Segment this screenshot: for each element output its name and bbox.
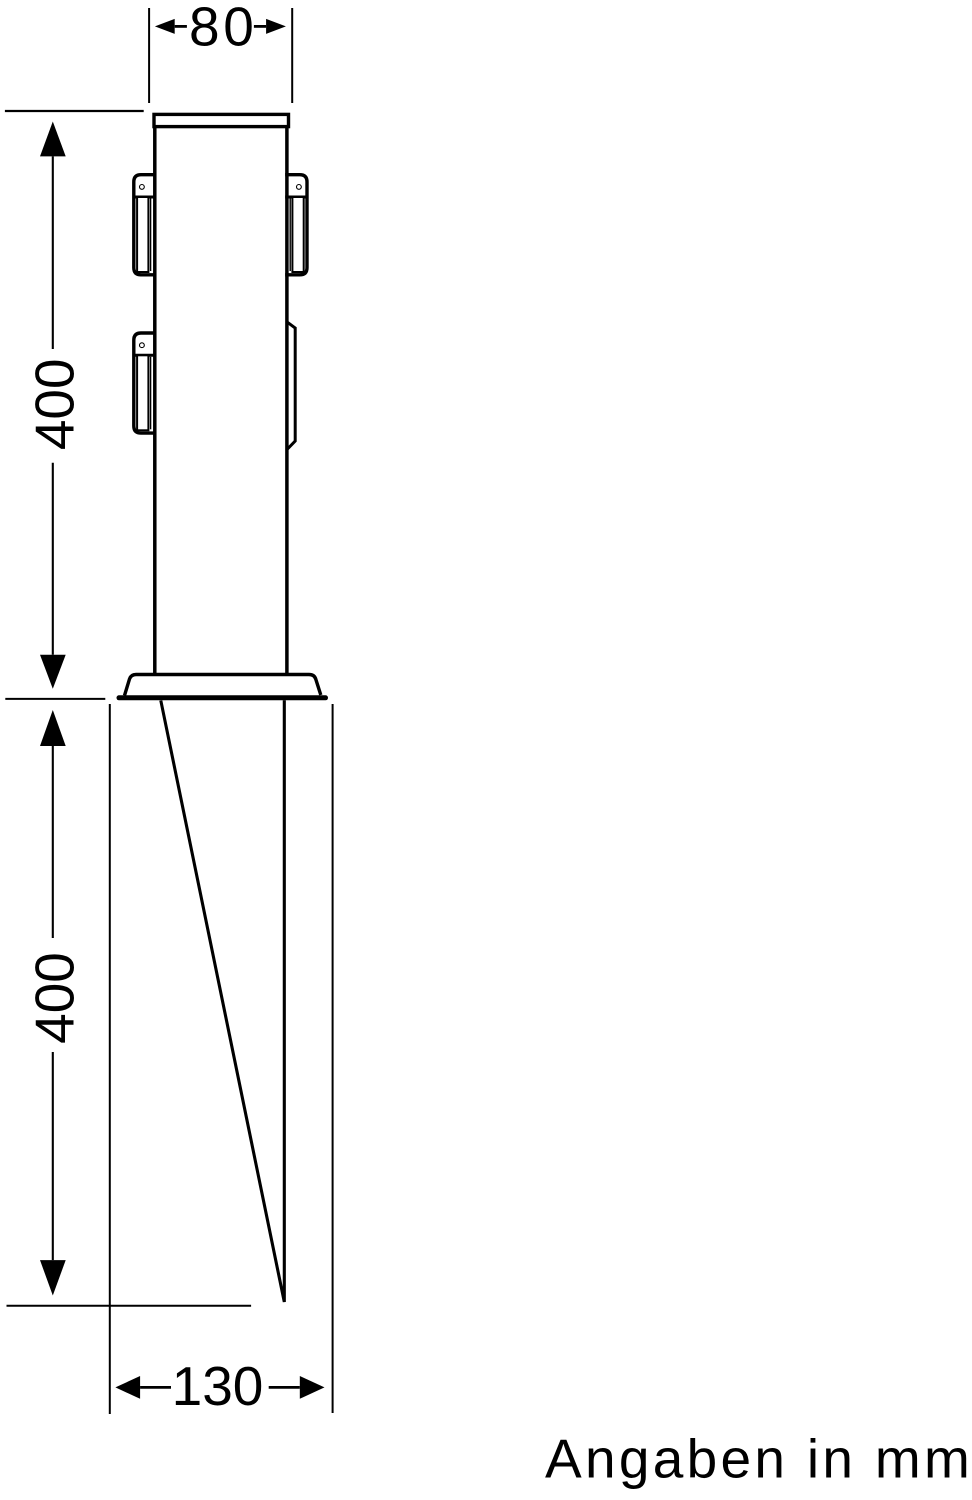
socket cover upper right [285,175,307,275]
svg-text:130: 130 [172,1355,264,1417]
extension line 80 right [291,8,293,103]
socket cover upper left [134,175,156,275]
svg-text:400: 400 [24,952,86,1044]
base bottom plate [119,695,326,700]
arrow 130 right [269,1376,325,1399]
column right edge [285,127,289,675]
base body [125,675,321,696]
svg-text:Angaben in mm: Angaben in mm [545,1428,972,1490]
socket flap lower right edge-on [288,322,296,449]
extension line 80 left [148,8,150,103]
arrow 130 left [115,1376,171,1399]
horizontal reference line top [5,110,144,112]
extension line 130 right [332,704,334,1413]
dimension line 400 upper [40,122,66,689]
arrow 80 left [155,19,187,34]
mid reference line [5,698,105,700]
extension line 130 left [109,704,111,1414]
dimension line 400 lower [40,710,66,1296]
svg-text:80: 80 [189,0,257,58]
cap [154,114,289,126]
arrow 80 right [254,19,286,34]
column body fill [157,127,286,674]
ground reference line [7,1305,252,1307]
ground spike [161,700,284,1302]
socket cover lower left [134,333,156,433]
column left edge [153,127,157,675]
svg-text:400: 400 [24,358,86,450]
